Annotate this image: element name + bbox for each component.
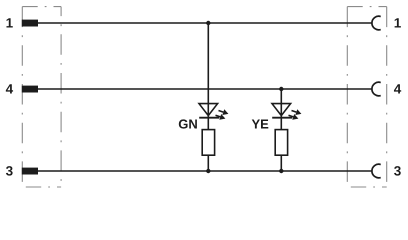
socket contact 4 (right, open arc): [372, 82, 381, 96]
junction: wire 3 / YE branch: [279, 169, 283, 173]
LED GN (green indicator diode): [199, 104, 228, 120]
svg-text:YE: YE: [251, 117, 269, 132]
left connector housing (dash-dot outline): [22, 7, 61, 187]
svg-text:1: 1: [6, 15, 14, 30]
LED YE (yellow indicator diode): [272, 104, 301, 120]
svg-text:3: 3: [394, 163, 402, 178]
pin contact 1 (left, solid): [22, 20, 38, 27]
socket contact 3 (right, open arc): [372, 164, 381, 178]
wire 4 (pin 4 left to pin 4 right): [37, 88, 372, 90]
socket contact 1 (right, open arc): [372, 16, 381, 30]
resistor R-YE: [275, 130, 287, 156]
right connector housing (dash-dot outline): [347, 7, 386, 187]
wire: YE branch vertical (node 4 to node 3): [280, 89, 282, 171]
junction: wire 1 / GN branch: [206, 21, 210, 25]
svg-text:4: 4: [394, 82, 402, 97]
pin contact 4 (left, solid): [22, 86, 38, 93]
svg-text:1: 1: [394, 15, 402, 30]
resistor R-GN: [202, 130, 214, 156]
pin contact 3 (left, solid): [22, 168, 38, 175]
svg-text:3: 3: [6, 163, 14, 178]
wire: GN branch vertical (node 1 to node 3): [207, 23, 209, 171]
wire 3 (pin 3 left to pin 3 right): [37, 170, 372, 172]
wire 1 (pin 1 left to pin 1 right): [37, 22, 372, 24]
junction: wire 3 / GN branch: [206, 169, 210, 173]
junction: wire 4 / YE branch: [279, 87, 283, 91]
svg-text:4: 4: [6, 82, 14, 97]
svg-text:GN: GN: [178, 117, 198, 132]
